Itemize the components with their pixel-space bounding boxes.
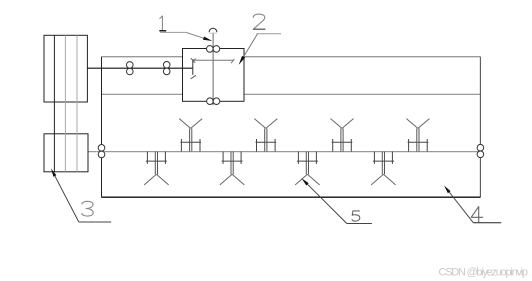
svg-text:CSDN @biyezuopinvip: CSDN @biyezuopinvip — [439, 267, 529, 279]
